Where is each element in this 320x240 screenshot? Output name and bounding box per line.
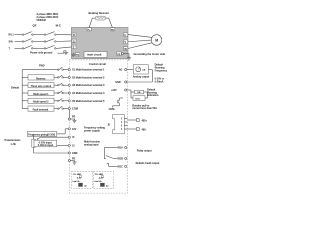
svg-text:indication: indication: [147, 93, 159, 97]
svg-text:GND: GND: [115, 81, 121, 84]
svg-text:Power side ground: Power side ground: [30, 50, 53, 54]
svg-text:X4 Multi-function terminal 4: X4 Multi-function terminal 4: [72, 91, 105, 95]
svg-text:Relay output: Relay output: [137, 148, 152, 152]
svg-text:J5: J5: [107, 122, 110, 126]
svg-text:current less than 50A: current less than 50A: [132, 106, 157, 110]
svg-text:50/60HZ: 50/60HZ: [37, 18, 47, 22]
svg-text:X3 Multi-function terminal 3: X3 Multi-function terminal 3: [72, 83, 105, 87]
svg-text:0-20mA input: 0-20mA input: [38, 143, 54, 147]
svg-text:J1-l J4B5: J1-l J4B5: [73, 173, 82, 176]
svg-text:ROC: ROC: [118, 165, 124, 168]
svg-text:Grounding the motor side: Grounding the motor side: [134, 52, 166, 56]
svg-text:1~5k: 1~5k: [11, 143, 17, 146]
svg-text:Potentiometer: Potentiometer: [5, 139, 21, 142]
svg-text:M-C: M-C: [56, 24, 62, 28]
svg-text:0-20mA: 0-20mA: [155, 80, 164, 84]
svg-text:485+: 485+: [142, 118, 148, 122]
svg-text:l◄■ l-B r: l◄■ l-B r: [72, 180, 80, 183]
svg-text:A-l: A-l: [84, 184, 87, 187]
svg-text:PE: PE: [72, 157, 76, 160]
svg-text:X2 Multi-function terminal 2: X2 Multi-function terminal 2: [72, 75, 105, 79]
svg-text:ROA: ROA: [118, 147, 124, 150]
svg-text:S/N: S/N: [9, 41, 13, 44]
svg-text:VI: VI: [72, 136, 75, 139]
svg-text:Default: Default: [11, 86, 19, 89]
svg-text:main circuit: main circuit: [87, 53, 102, 57]
svg-text:Frequency: Frequency: [155, 69, 168, 73]
svg-text:Reverse: Reverse: [36, 77, 46, 80]
svg-text:T: T: [9, 47, 11, 50]
svg-text:COM: COM: [109, 108, 115, 111]
svg-text:X5 Multi-function terminal 5: X5 Multi-function terminal 5: [72, 99, 105, 103]
svg-text:PE: PE: [72, 116, 76, 119]
svg-text:CI: CI: [72, 144, 75, 147]
svg-text:Fault terminal: Fault terminal: [33, 109, 49, 112]
svg-text:Three wire control: Three wire control: [31, 85, 52, 88]
svg-text:QF: QF: [33, 24, 37, 28]
svg-text:mA: mA: [142, 68, 146, 71]
svg-text:PB: PB: [111, 29, 114, 31]
svg-text:(l-2l): (l-2l): [99, 177, 103, 179]
svg-text:ROB: ROB: [118, 157, 124, 160]
svg-text:(l-2l): (l-2l): [77, 177, 81, 179]
svg-text:power supply: power supply: [84, 129, 100, 133]
svg-text:analog input: analog input: [84, 142, 99, 146]
svg-text:R/L1: R/L1: [9, 34, 15, 37]
svg-text:485-: 485-: [142, 127, 147, 131]
svg-text:GND: GND: [72, 152, 78, 155]
svg-text:AO: AO: [119, 69, 123, 72]
svg-text:Default: Fault output: Default: Fault output: [136, 161, 160, 165]
svg-text:A-l: A-l: [106, 184, 109, 187]
svg-text:COM: COM: [72, 107, 78, 111]
svg-text:X1 Multi-function terminal 1: X1 Multi-function terminal 1: [72, 68, 105, 72]
svg-text:Braking Resistor: Braking Resistor: [89, 11, 110, 15]
svg-text:FWD: FWD: [39, 64, 45, 67]
svg-text:Analog output: Analog output: [133, 75, 150, 79]
svg-text:+24V: +24V: [111, 89, 117, 92]
svg-text:DB: DB: [137, 92, 141, 94]
svg-text:Control circuit: Control circuit: [89, 62, 106, 66]
svg-text:R: R: [73, 33, 75, 37]
svg-text:J2-l J4B5: J2-l J4B5: [95, 173, 104, 176]
svg-text:Multi-speed 1: Multi-speed 1: [33, 93, 49, 96]
svg-text:Frequency giving(0-10V): Frequency giving(0-10V): [28, 133, 55, 136]
svg-text:l◄■ l-B r: l◄■ l-B r: [94, 180, 102, 183]
svg-text:10V: 10V: [72, 128, 77, 131]
svg-text:Multi-speed 2: Multi-speed 2: [33, 101, 49, 104]
svg-text:M: M: [155, 38, 158, 42]
svg-text:U: U: [124, 33, 126, 37]
